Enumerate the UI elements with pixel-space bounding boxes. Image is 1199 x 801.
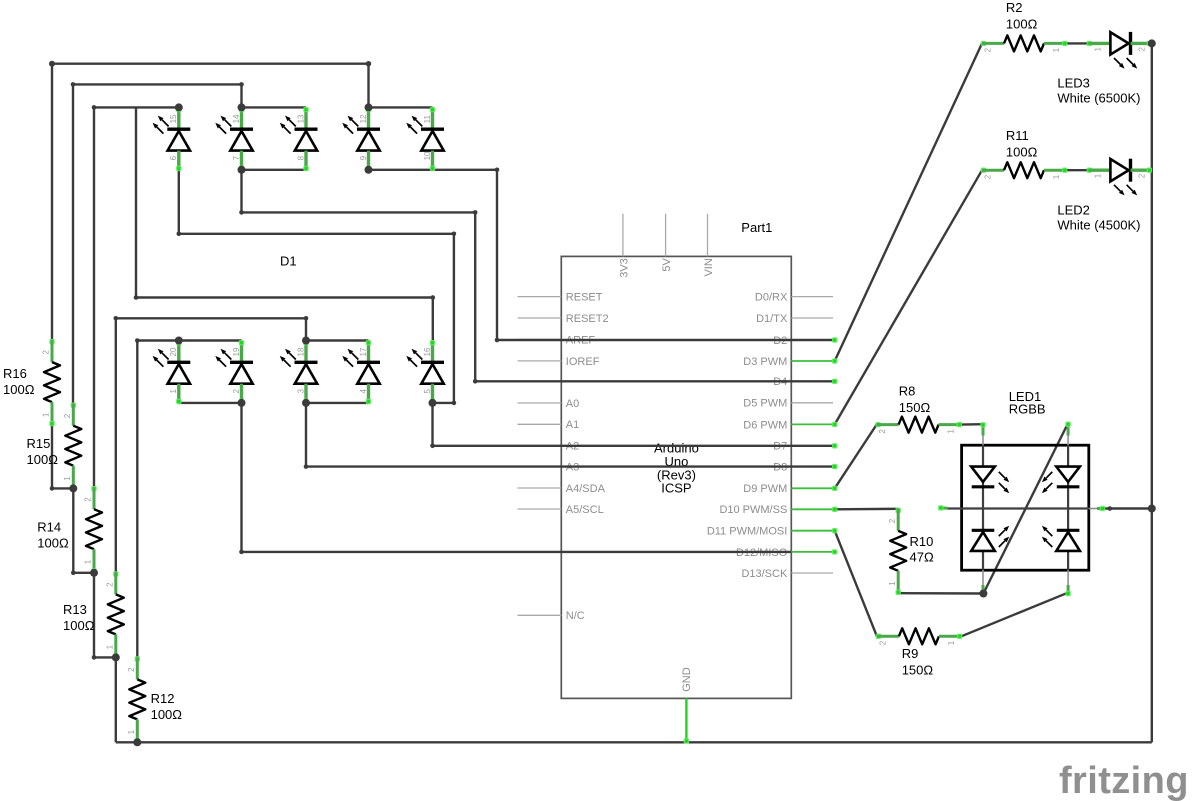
svg-text:A0: A0 [566,398,579,410]
svg-text:19: 19 [232,347,241,356]
wire LED1 bottom-left to top-right diagonal [983,424,1067,594]
svg-text:100Ω: 100Ω [3,382,35,397]
wire D9 to R8 diagonal [835,425,877,489]
resistor R13 100Ω [63,571,124,658]
wire D3 to R2 diagonal [835,43,982,361]
svg-text:100Ω: 100Ω [63,618,95,633]
LED D1 pin14/pin7 [215,107,253,171]
svg-text:6: 6 [169,155,178,160]
wire D11 to R9 diagonal [835,531,877,637]
wire R9 to LED1 bottom-right diagonal [961,593,1067,637]
wire net R14-LED15: bus [94,107,179,487]
wire R2 to LED3 [1066,42,1090,44]
svg-text:1: 1 [63,476,72,481]
svg-text:20: 20 [169,347,178,356]
svg-text:D5 PWM: D5 PWM [743,398,787,410]
svg-text:100Ω: 100Ω [27,452,59,467]
resistor R2 100Ω [981,0,1068,52]
svg-text:100Ω: 100Ω [1006,17,1038,32]
LED1 RGBB package [938,389,1105,596]
LED2 White 4500K [1057,159,1152,233]
resistor R16 100Ω [3,339,60,426]
svg-text:LED2: LED2 [1057,203,1090,218]
svg-text:RESET2: RESET2 [566,313,609,325]
resistor R12 100Ω [127,656,182,743]
svg-text:100Ω: 100Ω [151,707,183,722]
svg-text:N/C: N/C [566,610,585,622]
resistor R8 150Ω [875,383,962,433]
Arduino pin stubs [518,296,562,298]
wire LED14-LED13 anodes [242,106,307,108]
svg-text:12: 12 [359,114,368,123]
wire net R16-LED12: top bus [52,64,369,108]
svg-text:2: 2 [984,47,993,52]
svg-text:R12: R12 [151,691,175,706]
svg-text:17: 17 [359,347,368,356]
svg-text:D1/TX: D1/TX [756,313,788,325]
svg-text:1: 1 [105,644,114,649]
svg-text:1: 1 [1052,174,1061,179]
svg-text:A4/SDA: A4/SDA [566,483,606,495]
svg-text:2: 2 [63,413,72,418]
svg-text:2: 2 [105,582,114,587]
LED D1 pin18/pin3 [280,340,318,404]
svg-text:150Ω: 150Ω [899,400,931,415]
svg-text:R8: R8 [899,383,916,398]
svg-text:2: 2 [84,497,93,502]
svg-text:14: 14 [232,114,241,123]
LED D1 pin19/pin2 [215,340,253,404]
wire LED7-LED8 cathodes [242,169,307,171]
svg-text:100Ω: 100Ω [1006,145,1038,160]
svg-text:R14: R14 [37,520,61,535]
svg-text:R10: R10 [910,534,934,549]
svg-text:10: 10 [423,151,432,160]
svg-text:D6 PWM: D6 PWM [743,419,787,431]
svg-text:2: 2 [232,389,241,394]
wire net R16: left vertical [51,64,53,340]
svg-text:D3 PWM: D3 PWM [743,356,787,368]
wire ground rail [116,741,1152,743]
svg-text:9: 9 [359,155,368,160]
wire LED1-LED2 cathodes [179,402,242,404]
svg-text:Part1: Part1 [741,220,772,235]
svg-text:D9 PWM: D9 PWM [743,483,787,495]
resistor R9 150Ω [876,628,963,677]
wire net R13-LED18 [116,318,306,572]
svg-text:R9: R9 [902,646,919,661]
svg-text:3: 3 [296,389,305,394]
svg-text:D10 PWM/SS: D10 PWM/SS [719,504,787,516]
svg-text:D11 PWM/MOSI: D11 PWM/MOSI [707,526,787,538]
LED D1 pin15/pin6 [153,107,191,171]
wire LED12-LED11 anodes [369,106,433,108]
wire LED9-LED10 to D2 [369,170,835,340]
wire end connectors at Arduino pins [832,337,837,342]
wire LED5 to D7 [433,403,835,446]
wire R14 to R13 [94,573,116,658]
svg-text:ICSP: ICSP [661,480,691,495]
wire LED20-LED19 anodes [179,339,242,341]
LED D1 pin17/pin4 [342,340,380,404]
svg-text:GND: GND [681,667,693,692]
svg-text:7: 7 [232,155,241,160]
svg-text:D1: D1 [280,254,297,269]
LED D1 pin11/pin10 [406,107,444,171]
wire net R15-LED14: bus [73,84,242,403]
svg-text:RGBB: RGBB [1009,402,1046,417]
wire R8 to LED1 pin [961,423,983,426]
svg-text:2: 2 [878,640,887,645]
svg-text:47Ω: 47Ω [910,550,934,565]
svg-text:A1: A1 [566,419,579,431]
IC Part1 Arduino Uno (Rev3) body [561,256,791,698]
svg-text:8: 8 [296,155,305,160]
svg-text:VIN: VIN [703,258,715,276]
wire R13 to ground rail [115,657,117,742]
resistor R14 100Ω [37,486,102,573]
svg-text:LED3: LED3 [1057,76,1090,91]
LED D1 pin12/pin9 [342,107,380,171]
wire right rail [1151,43,1153,742]
svg-text:2: 2 [127,667,136,672]
wire R11 to LED2 [1066,169,1090,171]
resistor R10 47Ω [888,508,934,595]
resistor R11 100Ω [981,128,1068,179]
svg-text:R16: R16 [3,366,27,381]
svg-text:fritzing: fritzing [1059,760,1189,801]
wire R10 to LED1 bottom-left [898,592,983,595]
svg-text:D13/SCK: D13/SCK [741,568,788,580]
wire LED3 to D8 [306,403,835,467]
svg-text:2: 2 [1138,173,1147,178]
wire LED7 to D4 [242,170,835,381]
svg-text:5: 5 [423,389,432,394]
svg-text:White (4500K): White (4500K) [1057,218,1140,233]
wire R15 to R14 [73,488,94,572]
svg-text:11: 11 [423,115,432,124]
svg-text:1: 1 [947,429,956,434]
svg-text:2: 2 [878,429,887,434]
svg-text:White (6500K): White (6500K) [1057,91,1140,106]
svg-text:1: 1 [1094,173,1103,178]
wire net R12-LED20 [137,341,179,658]
svg-text:5V: 5V [661,258,673,272]
svg-text:1: 1 [1052,47,1061,52]
wire LED2 to D12 [242,403,792,552]
resistor R15 100Ω [27,403,82,490]
svg-text:150Ω: 150Ω [902,663,934,678]
svg-text:D0/RX: D0/RX [755,292,788,304]
wire LED18-LED17 anodes [306,339,369,341]
svg-text:1: 1 [84,559,93,564]
svg-text:1: 1 [888,581,897,586]
svg-text:A5/SCL: A5/SCL [566,504,604,516]
svg-text:R11: R11 [1006,128,1029,143]
svg-text:13: 13 [296,114,305,123]
svg-text:1: 1 [1094,47,1103,52]
svg-text:2: 2 [984,174,993,179]
green wires at Arduino D pins [791,360,834,362]
wire R16 to R15 [52,425,73,488]
LED D1 pin13/pin8 [280,107,318,171]
svg-text:1: 1 [947,640,956,645]
svg-text:4: 4 [359,389,368,394]
svg-text:2: 2 [888,518,897,523]
LED D1 pin20/pin1 [153,340,191,404]
svg-text:18: 18 [296,347,305,356]
wire D6 to R11 diagonal [835,170,982,424]
wire LED3-LED4 cathodes [306,402,369,404]
LED D1 pin16/pin5 [406,340,444,404]
svg-text:15: 15 [169,114,178,123]
wire LED6-LED5 cathodes [179,170,454,403]
svg-text:1: 1 [42,412,51,417]
green wire GND to rail [685,698,687,742]
wire junctions [49,61,55,67]
wire LED1 mid-right to rail [1104,507,1152,509]
svg-text:100Ω: 100Ω [37,536,69,551]
wire net R14 branch to LED16 [136,107,433,340]
svg-text:RESET: RESET [566,292,603,304]
svg-text:R13: R13 [63,602,87,617]
svg-text:16: 16 [423,347,432,356]
svg-text:IOREF: IOREF [566,356,600,368]
svg-text:R15: R15 [27,436,51,451]
LED3 White 6500K [1057,32,1152,106]
svg-text:3V3: 3V3 [618,258,630,278]
svg-text:2: 2 [1138,47,1147,52]
svg-text:1: 1 [127,729,136,734]
svg-text:2: 2 [42,350,51,355]
wire D10 to R10 [835,508,899,511]
svg-text:1: 1 [169,389,178,394]
svg-text:R2: R2 [1006,0,1023,15]
